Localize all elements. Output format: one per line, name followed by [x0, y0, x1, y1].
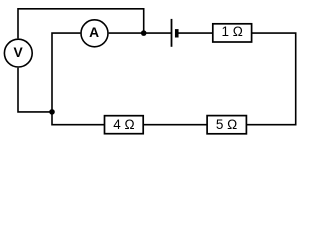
- battery cell: long positive plate: [171, 19, 173, 47]
- resistor R3 box (5 ohm): [207, 116, 246, 134]
- resistor R1 value label 1 ohm: [222, 24, 243, 39]
- svg-text:1 Ω: 1 Ω: [222, 24, 243, 39]
- svg-text:4 Ω: 4 Ω: [113, 117, 134, 132]
- wire: battery right lead to resistor R1: [178, 32, 213, 34]
- voltmeter V circle: [4, 39, 32, 67]
- wire: resistor R1 right lead, right vertical run, bottom run to R3: [246, 33, 295, 125]
- resistor R1 box (1 ohm): [213, 24, 252, 42]
- wire: voltmeter top lead, top horizontal run, drop to node B: [18, 9, 144, 39]
- svg-text:5 Ω: 5 Ω: [216, 117, 237, 132]
- wire: battery left lead: [144, 32, 171, 34]
- node B junction dot: [141, 30, 147, 36]
- ammeter A circle: [81, 20, 108, 47]
- wire: voltmeter bottom lead and bottom-left horizontal to node A: [18, 68, 52, 112]
- wire: bottom run between R2 and R3: [143, 124, 207, 126]
- wire: bottom-left run, mid vertical through node A, ammeter left lead: [52, 33, 105, 125]
- resistor R3 value label 5 ohm: [216, 117, 237, 132]
- svg-text:A: A: [89, 25, 99, 40]
- ammeter A label: [89, 25, 99, 40]
- wire: ammeter right lead to node B: [109, 32, 144, 34]
- svg-text:V: V: [13, 45, 23, 60]
- node A junction dot: [49, 109, 55, 115]
- battery cell: short thick negative plate: [175, 29, 179, 37]
- voltmeter V label: [13, 45, 23, 60]
- resistor R2 box (4 ohm): [105, 116, 144, 134]
- resistor R2 value label 4 ohm: [113, 117, 134, 132]
